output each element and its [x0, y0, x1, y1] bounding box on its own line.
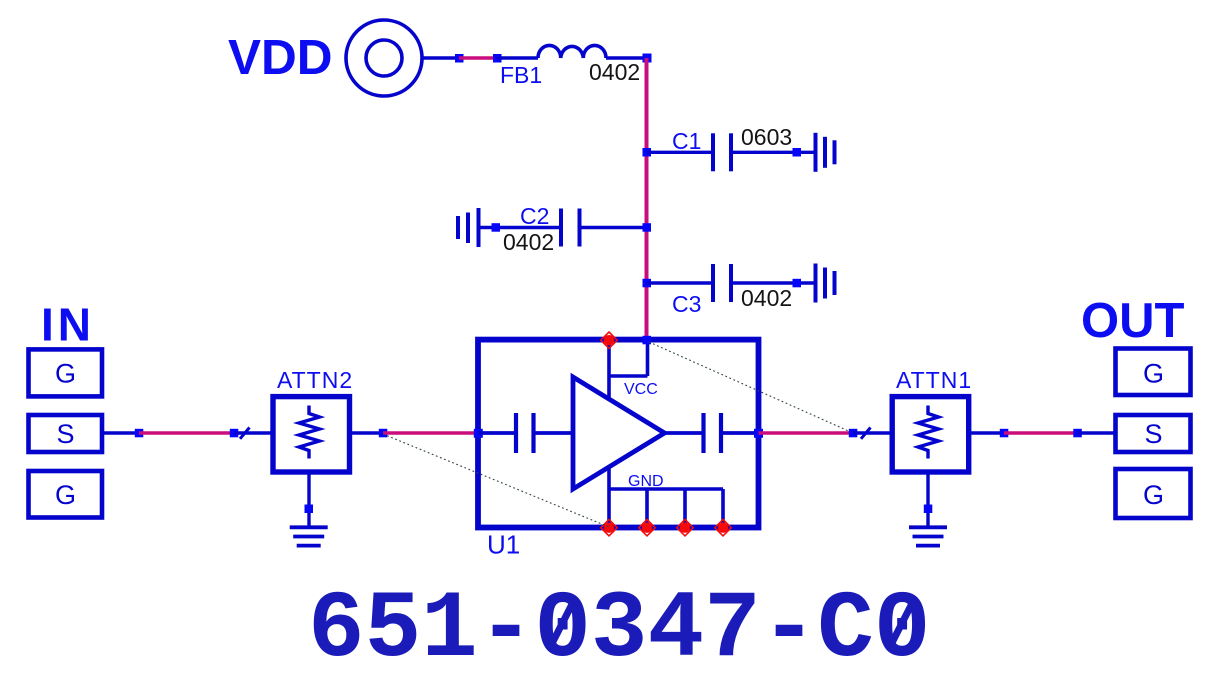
- node C2 junction: [643, 223, 652, 232]
- svg-text:GND: GND: [628, 473, 664, 490]
- svg-text:G: G: [1143, 359, 1164, 389]
- wire to ATTN1: [853, 431, 892, 434]
- wire GND pin riser: [607, 467, 611, 528]
- svg-text:G: G: [1143, 480, 1164, 510]
- capacitor C3 plate 2: [729, 264, 733, 302]
- junction square U1 input: [474, 429, 483, 438]
- junction square: [379, 429, 388, 438]
- junction square: [793, 148, 802, 157]
- svg-text:S: S: [1144, 419, 1162, 449]
- slash of zero 1: [550, 597, 576, 648]
- svg-text:G: G: [55, 359, 76, 389]
- pin marker GND4 (red): [715, 520, 731, 536]
- svg-text:FB1: FB1: [500, 62, 542, 88]
- junction square: [793, 279, 802, 288]
- ground of C2 (rotated): [458, 208, 479, 247]
- capacitor C2 plate 1: [559, 209, 563, 247]
- wire GND drop 2: [645, 489, 649, 528]
- junction square: [135, 429, 144, 438]
- wire C1 lead: [647, 151, 715, 154]
- connector IN pad S: [29, 415, 103, 452]
- svg-text:C3: C3: [672, 291, 701, 317]
- slash marker (wire tap): [240, 428, 250, 439]
- capacitor output plate 1: [701, 413, 705, 453]
- svg-text:IN: IN: [41, 299, 95, 351]
- svg-text:VCC: VCC: [624, 381, 658, 398]
- wire GND drop 3: [683, 489, 687, 528]
- wire VCC step vertical: [646, 340, 650, 376]
- wire IN S pad to junction: [104, 431, 139, 434]
- pin marker GND2 (red): [639, 520, 655, 536]
- wire to OUT S pad: [1078, 431, 1115, 434]
- junction square: [230, 429, 239, 438]
- wire main vertical VDD net: [645, 58, 649, 340]
- wire magenta IN segment: [139, 431, 234, 435]
- wire output lead to cap: [665, 431, 704, 435]
- svg-text:S: S: [56, 419, 74, 449]
- slash marker (wire tap): [861, 428, 871, 439]
- op-amp triangle of U1: [573, 377, 665, 489]
- wire magenta ATTN2 to U1: [383, 431, 478, 435]
- connector OUT pad G2: [1116, 469, 1191, 518]
- svg-text:C1: C1: [672, 128, 701, 154]
- svg-text:ATTN1: ATTN1: [896, 367, 972, 393]
- ground of C1 (rotated): [816, 133, 835, 172]
- svg-text:0402: 0402: [741, 285, 792, 311]
- resistor zigzag in ATTN1: [918, 406, 939, 459]
- ground of C3 (rotated): [816, 264, 835, 303]
- capacitor C3 plate 1: [711, 264, 715, 302]
- junction square: [1000, 429, 1009, 438]
- wire C2 to main net: [580, 226, 647, 229]
- wire ATTN2 ground stub: [307, 472, 310, 527]
- resistor zigzag in ATTN2: [299, 406, 320, 459]
- wire ATTN2 right: [350, 431, 383, 434]
- connector J-VDD outer circle: [346, 20, 422, 96]
- svg-text:ATTN2: ATTN2: [277, 367, 353, 393]
- wire C1 to ground: [732, 151, 816, 154]
- junction square: [924, 505, 933, 514]
- svg-text:G: G: [55, 480, 76, 510]
- junction square: [492, 223, 501, 232]
- wire GND bus horizontal: [609, 487, 723, 491]
- wire VDD connector to junction: [422, 56, 459, 59]
- capacitor input plate 2: [531, 413, 535, 453]
- wire to FB1: [497, 56, 538, 59]
- corner junction square: [643, 54, 652, 63]
- slash of zero 2: [889, 597, 915, 648]
- connector J-VDD inner circle: [366, 40, 402, 76]
- svg-text:0402: 0402: [503, 229, 554, 255]
- junction square: [1073, 429, 1082, 438]
- capacitor input plate 1: [514, 413, 518, 453]
- ground of ATTN2: [290, 527, 328, 545]
- connector IN pad G2: [29, 471, 103, 518]
- svg-text:C2: C2: [520, 203, 549, 229]
- ferrite bead FB1: [538, 45, 606, 58]
- wire C3 to ground: [731, 281, 815, 284]
- wire to triangle: [534, 431, 574, 435]
- capacitor C1 plate 2: [729, 133, 733, 171]
- ratsnest diagonal 1: [649, 342, 853, 433]
- pin marker GND3 (red): [677, 520, 693, 536]
- wire to ATTN2: [234, 431, 273, 434]
- node C1 junction: [643, 148, 652, 157]
- svg-text:651-0347-C0: 651-0347-C0: [308, 577, 930, 684]
- wire GND drop 4: [721, 489, 725, 528]
- wire output to box edge: [721, 431, 759, 435]
- wire magenta OUT segment: [1004, 431, 1078, 435]
- wire input lead inside U1: [478, 431, 516, 435]
- capacitor C1 plate 1: [711, 133, 715, 171]
- junction square: [849, 429, 858, 438]
- connector IN pad G1: [29, 349, 103, 396]
- connector OUT pad G1: [1116, 349, 1191, 396]
- svg-text:OUT: OUT: [1081, 294, 1185, 348]
- svg-text:U1: U1: [487, 530, 520, 560]
- ground of ATTN1: [909, 527, 947, 545]
- ratsnest diagonal 2: [383, 434, 609, 527]
- junction square: [493, 54, 502, 63]
- svg-text:0603: 0603: [741, 124, 792, 150]
- svg-text:VDD: VDD: [228, 30, 333, 85]
- wire C3 lead: [647, 281, 714, 284]
- wire VCC step horizontal: [609, 374, 648, 378]
- wire C2 ground lead: [479, 226, 562, 229]
- wire ATTN1 right: [969, 431, 1004, 434]
- amplifier U1 box: [478, 340, 759, 528]
- capacitor output plate 2: [719, 413, 723, 453]
- connector OUT pad S: [1116, 415, 1191, 452]
- junction square: [455, 54, 464, 63]
- pin marker GND1 (red): [601, 520, 617, 536]
- wire VCC pin drop: [607, 340, 611, 400]
- attenuator ATTN2 box: [273, 397, 350, 472]
- svg-text:0402: 0402: [589, 59, 640, 85]
- capacitor C2 plate 2: [578, 209, 582, 247]
- pin marker VCC (red): [601, 332, 617, 348]
- attenuator ATTN1 box: [892, 397, 969, 472]
- junction square U1 VCC top: [643, 336, 652, 345]
- junction square U1 output: [754, 429, 763, 438]
- wire ATTN1 ground stub: [926, 472, 929, 527]
- junction square: [305, 505, 314, 514]
- wire magenta VDD segment: [459, 56, 497, 60]
- wire magenta U1 to ATTN1: [759, 431, 854, 435]
- wire FB1 to corner: [606, 56, 647, 59]
- node C3 junction: [643, 279, 652, 288]
